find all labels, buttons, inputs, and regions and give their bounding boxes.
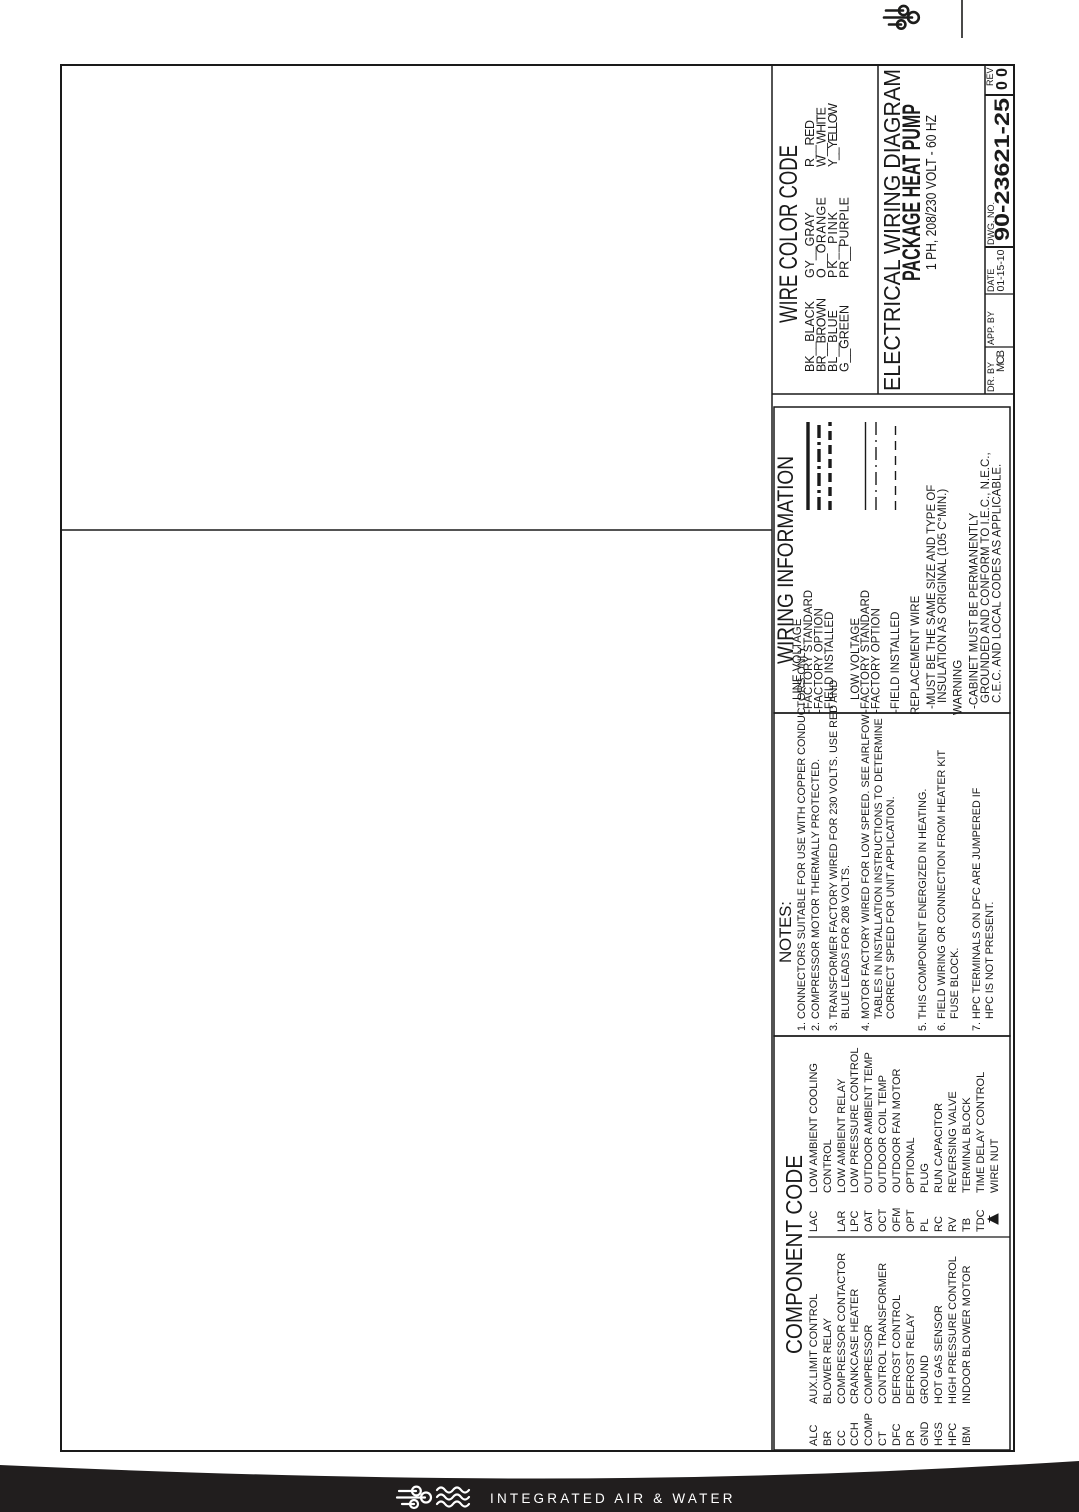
svg-text:LPC: LPC xyxy=(849,1211,861,1232)
footer wind icon xyxy=(397,1487,431,1508)
svg-text:GND: GND xyxy=(919,1422,931,1447)
svg-text:MCB: MCB xyxy=(995,350,1007,372)
svg-text:90-23621-25: 90-23621-25 xyxy=(991,98,1014,241)
svg-text:CC: CC xyxy=(836,1430,848,1446)
svg-text:1. CONNECTORS SUITABLE FOR USE: 1. CONNECTORS SUITABLE FOR USE WITH COPP… xyxy=(796,644,808,1031)
svg-text:1 PH, 208/230 VOLT - 60 HZ: 1 PH, 208/230 VOLT - 60 HZ xyxy=(923,115,940,270)
bottom black band xyxy=(0,1452,1079,1512)
svg-text:Y__YELLOW: Y__YELLOW xyxy=(826,103,840,167)
svg-text:FUSE BLOCK.: FUSE BLOCK. xyxy=(949,948,961,1019)
svg-text:OPT: OPT xyxy=(905,1209,917,1232)
wire nut legend symbol xyxy=(988,1214,998,1224)
svg-text:TIME DELAY CONTROL: TIME DELAY CONTROL xyxy=(975,1072,987,1193)
svg-text:LOW AMBIENT RELAY: LOW AMBIENT RELAY xyxy=(836,1078,848,1193)
svg-text:CT: CT xyxy=(877,1431,889,1446)
WIRING INFORMATION panel xyxy=(774,407,1010,713)
svg-text:LOW AMBIENT COOLING: LOW AMBIENT COOLING xyxy=(808,1063,820,1193)
component code column 1 xyxy=(808,1253,973,1446)
svg-text:BLUE LEADS FOR 208 VOLTS.: BLUE LEADS FOR 208 VOLTS. xyxy=(840,865,852,1019)
svg-text:CONTROL: CONTROL xyxy=(822,1139,834,1193)
svg-text:TB: TB xyxy=(961,1218,973,1232)
svg-text:OAT: OAT xyxy=(863,1210,875,1232)
svg-text:PL: PL xyxy=(919,1219,931,1232)
svg-text:COMPRESSOR CONTACTOR: COMPRESSOR CONTACTOR xyxy=(836,1253,848,1404)
svg-text:-FACTORY OPTION: -FACTORY OPTION xyxy=(871,608,883,713)
svg-text:CRANKCASE HEATER: CRANKCASE HEATER xyxy=(849,1289,861,1404)
svg-text:BR: BR xyxy=(822,1431,834,1446)
svg-text:INTEGRATED AIR & WATER: INTEGRATED AIR & WATER xyxy=(490,1491,736,1506)
svg-text:GROUND: GROUND xyxy=(919,1355,931,1404)
svg-text:COMPONENT CODE: COMPONENT CODE xyxy=(781,1155,807,1354)
svg-text:PLUG: PLUG xyxy=(919,1163,931,1193)
wire color code column 1 xyxy=(803,298,852,372)
svg-text:OUTDOOR COIL TEMP: OUTDOOR COIL TEMP xyxy=(877,1075,889,1193)
svg-text:OUTDOOR FAN MOTOR: OUTDOOR FAN MOTOR xyxy=(891,1068,903,1193)
svg-text:COMPRESSOR: COMPRESSOR xyxy=(863,1324,875,1404)
svg-text:WIRE COLOR CODE: WIRE COLOR CODE xyxy=(775,145,803,323)
svg-text:OCT: OCT xyxy=(877,1209,889,1233)
COMPONENT CODE panel xyxy=(774,1036,1010,1450)
svg-text:REVERSING VALVE: REVERSING VALVE xyxy=(947,1091,959,1193)
svg-text:01-15-10: 01-15-10 xyxy=(995,249,1007,291)
svg-text:HGS: HGS xyxy=(933,1422,945,1446)
svg-text:HPC: HPC xyxy=(947,1423,959,1446)
main horizontal divider xyxy=(771,64,773,1452)
svg-text:WARNING: WARNING xyxy=(953,660,965,715)
svg-text:LAR: LAR xyxy=(836,1211,848,1232)
svg-text:5. THIS COMPONENT ENERGIZED IN: 5. THIS COMPONENT ENERGIZED IN HEATING. xyxy=(917,789,929,1031)
svg-text:COMP: COMP xyxy=(863,1413,875,1446)
svg-text:INSULATION AS ORIGINAL (105 C°: INSULATION AS ORIGINAL (105 C°MIN.) xyxy=(937,489,949,703)
top-right vertical rule xyxy=(961,0,963,38)
svg-text:TERMINAL BLOCK: TERMINAL BLOCK xyxy=(961,1097,973,1193)
svg-text:LAC: LAC xyxy=(808,1211,820,1232)
svg-text:CCH: CCH xyxy=(849,1422,861,1446)
svg-text:LOW PRESSURE CONTROL: LOW PRESSURE CONTROL xyxy=(849,1048,861,1193)
svg-text:TDC: TDC xyxy=(975,1209,987,1232)
component code column 2 xyxy=(808,1048,1001,1232)
svg-text:RC: RC xyxy=(933,1216,945,1232)
svg-text:DFC: DFC xyxy=(891,1423,903,1446)
svg-text:C.E.C. AND LOCAL CODES AS APPL: C.E.C. AND LOCAL CODES AS APPLICABLE. xyxy=(992,464,1004,703)
svg-text:G__GREEN: G__GREEN xyxy=(838,305,852,372)
svg-text:OUTDOOR AMBIENT TEMP: OUTDOOR AMBIENT TEMP xyxy=(863,1052,875,1193)
NOTES panel xyxy=(774,713,1010,1036)
svg-text:2. COMPRESSOR MOTOR THERMALLY: 2. COMPRESSOR MOTOR THERMALLY PROTECTED. xyxy=(810,759,822,1031)
svg-text:OFM: OFM xyxy=(891,1208,903,1232)
top-right wind logo icon xyxy=(0,0,1079,60)
svg-text:OPTIONAL: OPTIONAL xyxy=(905,1137,917,1193)
footer waves icon xyxy=(437,1488,469,1507)
svg-text:7. HPC TERMINALS ON DFC ARE JU: 7. HPC TERMINALS ON DFC ARE JUMPERED IF xyxy=(971,787,983,1031)
svg-text:REPLACEMENT WIRE: REPLACEMENT WIRE xyxy=(910,595,922,715)
svg-text:AUX.LIMIT CONTROL: AUX.LIMIT CONTROL xyxy=(808,1294,820,1404)
svg-text:-CABINET MUST BE PERMANENTLY: -CABINET MUST BE PERMANENTLY xyxy=(969,512,981,709)
svg-text:TABLES IN INSTALLATION INSTRUC: TABLES IN INSTALLATION INSTRUCTIONS TO D… xyxy=(873,718,885,1019)
svg-text:GROUNDED AND CONFORM TO I.E.C.: GROUNDED AND CONFORM TO I.E.C., N.E.C., xyxy=(980,452,992,703)
title block panel borders xyxy=(772,393,1015,395)
svg-text:INDOOR BLOWER MOTOR: INDOOR BLOWER MOTOR xyxy=(961,1265,973,1404)
svg-text:RV: RV xyxy=(947,1216,959,1232)
svg-text:RUN CAPACITOR: RUN CAPACITOR xyxy=(933,1103,945,1193)
svg-text:3. TRANSFORMER FACTORY WIRED F: 3. TRANSFORMER FACTORY WIRED FOR 230 VOL… xyxy=(828,680,840,1031)
svg-text:HIGH PRESSURE CONTROL: HIGH PRESSURE CONTROL xyxy=(947,1256,959,1404)
svg-text:DEFROST RELAY: DEFROST RELAY xyxy=(905,1313,917,1404)
svg-text:6. FIELD WIRING OR CONNECTION: 6. FIELD WIRING OR CONNECTION FROM HEATE… xyxy=(936,749,948,1031)
svg-text:DEFROST CONTROL: DEFROST CONTROL xyxy=(891,1295,903,1404)
svg-text:-FIELD INSTALLED: -FIELD INSTALLED xyxy=(890,612,902,713)
svg-text:HOT GAS SENSOR: HOT GAS SENSOR xyxy=(933,1305,945,1404)
svg-text:PR__PURPLE: PR__PURPLE xyxy=(838,197,852,278)
svg-text:CONTROL TRANSFORMER: CONTROL TRANSFORMER xyxy=(877,1263,889,1404)
svg-text:WIRE NUT: WIRE NUT xyxy=(989,1138,1001,1193)
svg-text:CORRECT SPEED FOR UNIT APPLICA: CORRECT SPEED FOR UNIT APPLICATION. xyxy=(885,796,897,1019)
svg-text:ALC: ALC xyxy=(808,1425,820,1446)
svg-text:4. MOTOR FACTORY WIRED FOR LOW: 4. MOTOR FACTORY WIRED FOR LOW SPEED. SE… xyxy=(860,714,872,1031)
svg-text:HPC IS NOT PRESENT.: HPC IS NOT PRESENT. xyxy=(984,902,996,1019)
svg-text:PACKAGE HEAT PUMP: PACKAGE HEAT PUMP xyxy=(898,104,926,281)
schematic / wiring divider xyxy=(60,529,772,531)
line style samples xyxy=(808,422,896,510)
wire color code column 3 xyxy=(803,103,840,167)
svg-text:APP. BY: APP. BY xyxy=(986,311,996,345)
svg-text:NOTES:: NOTES: xyxy=(776,901,795,963)
svg-text:BLOWER RELAY: BLOWER RELAY xyxy=(822,1317,834,1404)
wire color code column 2 xyxy=(803,197,852,278)
svg-text:IBM: IBM xyxy=(961,1426,973,1446)
svg-text:DR: DR xyxy=(905,1430,917,1446)
svg-text:00: 00 xyxy=(994,68,1011,90)
